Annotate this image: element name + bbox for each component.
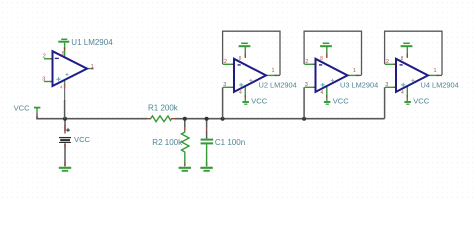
- svg-text:VCC: VCC: [14, 104, 31, 113]
- svg-text:R2 100k: R2 100k: [152, 138, 183, 147]
- svg-text:VCC: VCC: [413, 97, 430, 106]
- svg-text:U3 LM2904: U3 LM2904: [340, 81, 378, 90]
- svg-text:U1 LM2904: U1 LM2904: [71, 38, 113, 47]
- svg-text:VCC: VCC: [333, 97, 350, 106]
- svg-text:1: 1: [91, 64, 94, 70]
- svg-text:4: 4: [60, 85, 63, 91]
- svg-text:VCC: VCC: [74, 135, 91, 144]
- svg-text:8: 8: [62, 51, 65, 57]
- svg-text:C1 100n: C1 100n: [215, 138, 245, 147]
- svg-text:U4 LM2904: U4 LM2904: [421, 81, 459, 90]
- svg-text:3: 3: [42, 77, 45, 83]
- svg-text:VCC: VCC: [251, 97, 268, 106]
- svg-text:U2 LM2904: U2 LM2904: [259, 81, 297, 90]
- svg-text:R1 200k: R1 200k: [148, 103, 179, 112]
- svg-text:2: 2: [43, 54, 46, 60]
